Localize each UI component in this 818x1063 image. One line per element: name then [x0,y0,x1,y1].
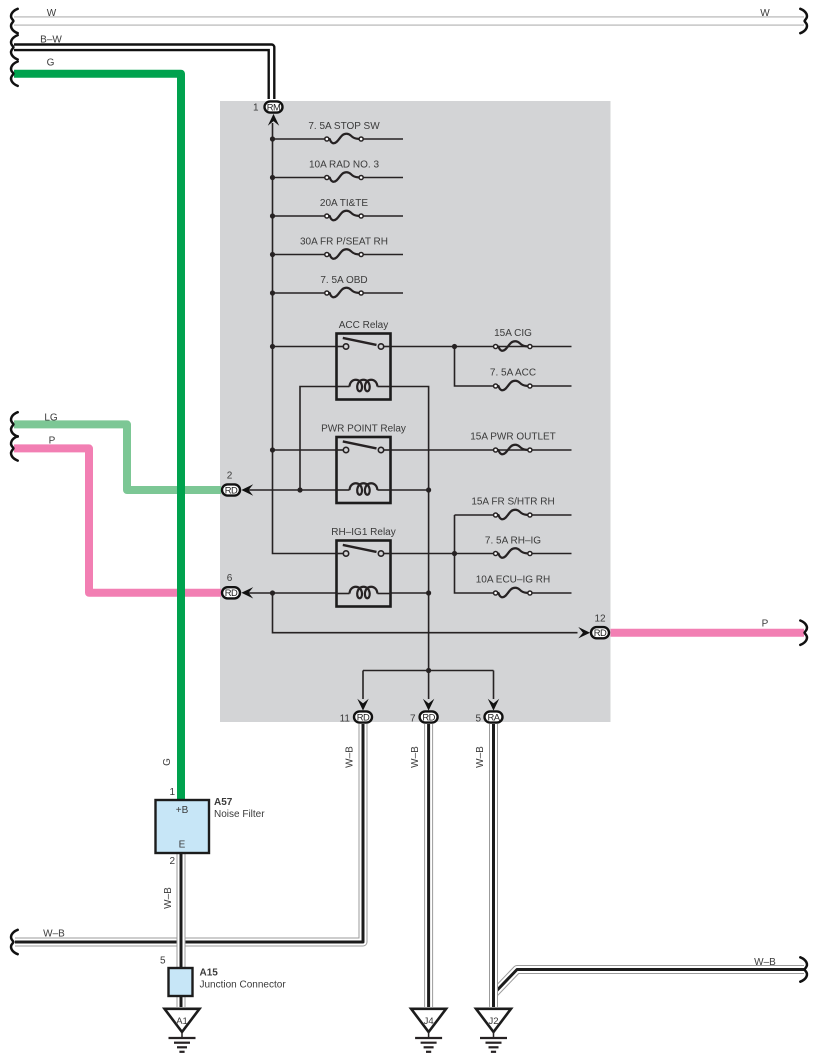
svg-text:20A TI&TE: 20A TI&TE [320,198,369,209]
svg-text:A15: A15 [200,968,219,979]
svg-text:1: 1 [253,103,259,114]
svg-text:Noise Filter: Noise Filter [214,809,265,820]
svg-text:W–B: W–B [410,746,421,768]
svg-text:5: 5 [160,956,166,967]
svg-text:12: 12 [594,614,606,625]
svg-text:11: 11 [340,714,351,725]
svg-text:10A RAD NO. 3: 10A RAD NO. 3 [309,160,379,171]
svg-text:W–B: W–B [754,957,776,968]
svg-text:RD: RD [594,627,607,638]
svg-text:15A PWR OUTLET: 15A PWR OUTLET [470,432,556,443]
svg-text:RD: RD [422,711,435,722]
svg-text:A1: A1 [176,1016,188,1027]
svg-text:A57: A57 [214,797,233,808]
svg-text:Junction Connector: Junction Connector [200,980,287,991]
svg-text:G: G [47,58,55,69]
svg-text:7: 7 [410,714,416,725]
svg-text:10A ECU–IG RH: 10A ECU–IG RH [476,575,550,586]
svg-text:B–W: B–W [40,35,62,46]
svg-text:E: E [179,840,186,851]
svg-text:7. 5A OBD: 7. 5A OBD [320,275,367,286]
svg-text:15A FR S/HTR RH: 15A FR S/HTR RH [471,497,554,508]
svg-text:J4: J4 [424,1016,434,1027]
svg-text:P: P [762,619,769,630]
svg-text:W–B: W–B [163,887,174,909]
svg-text:RM: RM [267,101,281,112]
svg-text:30A FR P/SEAT RH: 30A FR P/SEAT RH [300,237,388,248]
svg-text:RD: RD [225,484,238,495]
svg-text:LG: LG [44,413,58,424]
svg-text:7. 5A STOP SW: 7. 5A STOP SW [308,121,380,132]
svg-text:1: 1 [169,787,175,798]
svg-text:15A CIG: 15A CIG [494,328,532,339]
svg-text:P: P [49,436,56,447]
svg-text:2: 2 [227,471,233,482]
svg-text:ACC Relay: ACC Relay [339,320,388,331]
svg-text:J2: J2 [488,1016,498,1027]
svg-text:W: W [47,8,57,19]
svg-text:7. 5A ACC: 7. 5A ACC [490,368,536,379]
svg-text:RA: RA [487,711,500,722]
svg-text:PWR POINT Relay: PWR POINT Relay [321,424,406,435]
svg-text:W–B: W–B [43,929,65,940]
svg-text:2: 2 [169,856,175,867]
svg-text:5: 5 [475,714,481,725]
svg-text:6: 6 [227,573,233,584]
svg-text:W–B: W–B [475,746,486,768]
svg-text:RD: RD [225,587,238,598]
svg-text:G: G [162,758,173,766]
svg-text:RH–IG1 Relay: RH–IG1 Relay [331,527,395,538]
svg-text:+B: +B [176,805,189,816]
svg-text:RD: RD [357,711,370,722]
svg-text:7. 5A RH–IG: 7. 5A RH–IG [485,536,541,547]
svg-text:W: W [760,8,770,19]
svg-text:W–B: W–B [345,746,356,768]
